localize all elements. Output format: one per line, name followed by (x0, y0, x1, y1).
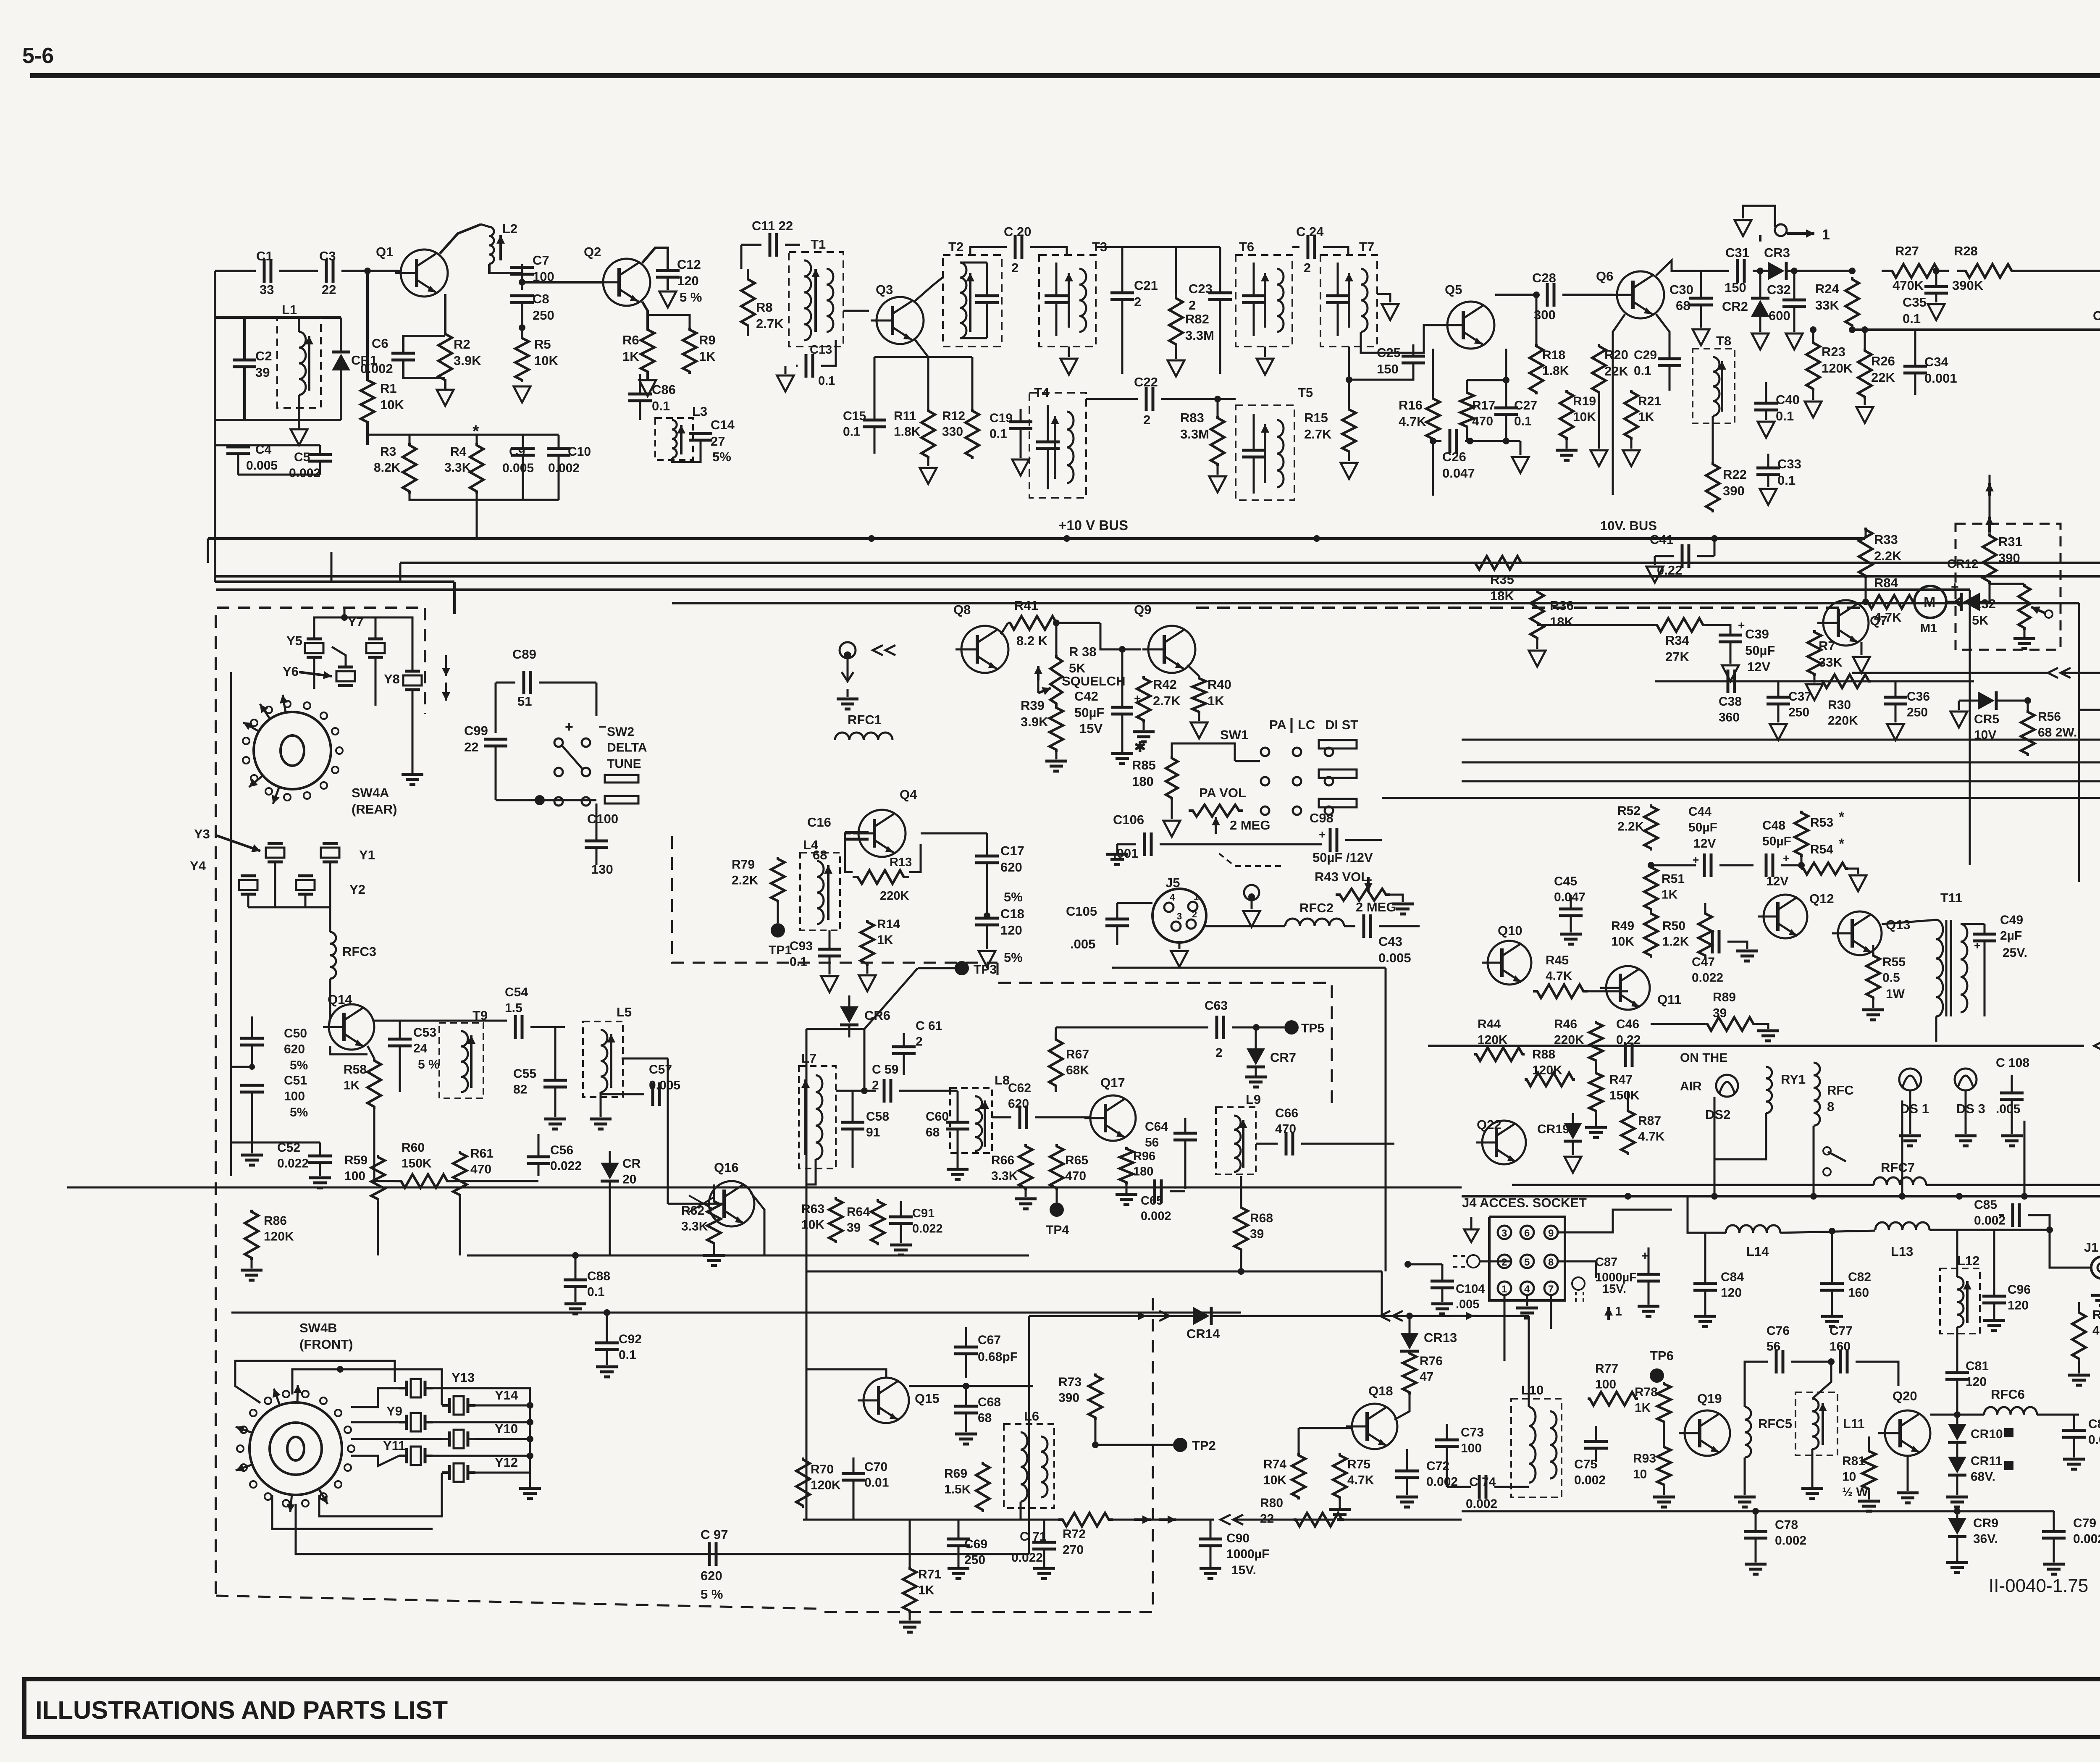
crystal bus wires (314, 617, 375, 639)
svg-text:0.1: 0.1 (587, 1285, 605, 1299)
resistor R16 4.7K (1426, 397, 1440, 441)
svg-text:3.3M: 3.3M (1180, 427, 1209, 441)
transistor Q3 (871, 297, 924, 344)
svg-text:50µF: 50µF (1688, 821, 1717, 835)
capacitor C15 0.1 (863, 419, 886, 422)
dashed TX boundary upper edge (997, 963, 1332, 1109)
svg-text:TUNE: TUNE (607, 757, 641, 771)
IF strip connections (751, 1193, 764, 1255)
capacitor C20 2 (1014, 235, 1017, 259)
svg-text:9: 9 (1548, 1228, 1554, 1239)
svg-text:27: 27 (711, 434, 725, 449)
svg-text:R68: R68 (1250, 1211, 1273, 1225)
svg-text:RFC7: RFC7 (1881, 1160, 1915, 1175)
svg-text:150: 150 (1725, 280, 1746, 295)
svg-text:R73: R73 (1058, 1375, 1081, 1389)
svg-text:C81: C81 (1966, 1359, 1989, 1373)
transistor Q8 (955, 626, 1008, 673)
svg-text:150K: 150K (402, 1157, 432, 1171)
svg-text:RFC6: RFC6 (1991, 1387, 2025, 1402)
svg-text:R46: R46 (1554, 1017, 1577, 1031)
svg-text:R55: R55 (1882, 955, 1906, 969)
meter M1 (1914, 586, 1946, 618)
net flag arrows inside synth box (445, 655, 447, 676)
svg-text:82: 82 (513, 1083, 527, 1097)
svg-text:R14: R14 (877, 917, 900, 931)
svg-text:R80: R80 (1260, 1496, 1283, 1510)
resistor R13 220K (853, 870, 909, 884)
svg-text:R83: R83 (1180, 410, 1204, 425)
svg-text:Y8: Y8 (384, 672, 400, 686)
ground right of T7 (1377, 294, 1390, 302)
svg-text:C53: C53 (413, 1026, 436, 1040)
svg-text:C 24: C 24 (1296, 224, 1324, 239)
svg-text:DELTA: DELTA (607, 741, 647, 755)
svg-text:RFC1: RFC1 (848, 712, 882, 727)
diode CR13 (1400, 1333, 1419, 1350)
capacitor C25 150 (1402, 355, 1425, 358)
socket contact circles (1467, 1255, 1480, 1268)
test point TP1 (771, 923, 785, 937)
svg-text:C30: C30 (1669, 282, 1693, 297)
transistor Q4 (853, 810, 906, 857)
resistor R42 2.7K (1137, 676, 1150, 722)
crystal Y2 (296, 880, 315, 890)
transistor Q10 (1482, 941, 1531, 985)
svg-text:LC: LC (1298, 717, 1315, 732)
svg-text:C23: C23 (1189, 281, 1213, 296)
inductor L4 can (800, 853, 840, 930)
svg-text:0.002: 0.002 (548, 461, 580, 475)
svg-text:L6: L6 (1024, 1409, 1039, 1423)
svg-text:C6: C6 (372, 336, 388, 351)
inductor L13 (1875, 1222, 1929, 1230)
svg-text:R44: R44 (1478, 1017, 1501, 1031)
svg-text:T6: T6 (1239, 239, 1254, 254)
svg-text:C42: C42 (1074, 689, 1098, 704)
svg-text:250: 250 (1788, 706, 1809, 720)
svg-text:T4: T4 (1034, 385, 1050, 400)
diode CR19 (1564, 1123, 1582, 1140)
svg-text:CR14: CR14 (1186, 1326, 1220, 1341)
svg-text:R 38: R 38 (1069, 644, 1096, 659)
diode CR14 (1193, 1307, 1210, 1325)
svg-text:R6: R6 (622, 333, 639, 347)
svg-text:100: 100 (344, 1169, 365, 1183)
svg-text:C1: C1 (256, 249, 273, 263)
svg-text:C26: C26 (1442, 449, 1466, 464)
resistor R17 470 (1460, 391, 1474, 429)
left mid rails (67, 1187, 1462, 1189)
transistor Q11 (1600, 966, 1650, 1010)
svg-text:R34: R34 (1665, 633, 1690, 648)
svg-text:Y3: Y3 (194, 827, 210, 841)
svg-text:C44: C44 (1688, 805, 1711, 819)
svg-text:15V.: 15V. (1602, 1282, 1626, 1296)
svg-text:C96: C96 (2008, 1283, 2031, 1297)
svg-text:R13: R13 (890, 856, 912, 869)
crystal Y3 (266, 848, 284, 858)
crystal Y1 (321, 848, 339, 858)
svg-text:22: 22 (1260, 1512, 1274, 1526)
svg-text:R20: R20 (1604, 347, 1628, 362)
inductor L1 dashed can (277, 318, 321, 408)
svg-text:0.1: 0.1 (1903, 311, 1921, 326)
svg-text:22K: 22K (1604, 364, 1628, 378)
svg-text:C8: C8 (533, 291, 549, 306)
svg-text:R23: R23 (1822, 344, 1845, 359)
svg-text:Y13: Y13 (451, 1370, 475, 1385)
svg-text:+: + (1319, 828, 1326, 841)
right trunk from CR4 down (2078, 603, 2080, 882)
svg-text:390: 390 (1723, 483, 1745, 498)
svg-text:2: 2 (1011, 260, 1018, 275)
svg-text:68K: 68K (1066, 1064, 1089, 1077)
svg-text:7: 7 (1548, 1284, 1554, 1295)
svg-text:33K: 33K (1815, 298, 1839, 312)
svg-text:C93: C93 (790, 939, 813, 953)
svg-text:R78: R78 (1635, 1385, 1658, 1399)
transistor Q7 (1817, 600, 1869, 646)
svg-text:L5: L5 (617, 1005, 632, 1019)
resistor R35 18K (1468, 556, 1529, 570)
svg-text:R59: R59 (344, 1153, 367, 1167)
capacitor C24 2 (1307, 235, 1310, 259)
capacitor C13 0.1 (805, 354, 808, 378)
verticals in synth (330, 1046, 367, 1054)
capacitor C36 250 (1884, 696, 1907, 699)
svg-text:100: 100 (1461, 1442, 1482, 1455)
svg-text:TP5: TP5 (1301, 1021, 1324, 1035)
svg-text:3.9K: 3.9K (454, 353, 481, 368)
svg-text:68: 68 (813, 848, 827, 862)
svg-text:0.1: 0.1 (1514, 415, 1532, 428)
svg-text:C78: C78 (1775, 1518, 1798, 1532)
svg-text:C 97: C 97 (701, 1527, 728, 1542)
svg-text:L1: L1 (282, 302, 297, 317)
svg-text:1K: 1K (1207, 693, 1224, 708)
svg-text:C82: C82 (1848, 1270, 1871, 1284)
svg-text:C46: C46 (1616, 1017, 1639, 1031)
svg-text:R26: R26 (1871, 354, 1895, 368)
svg-text:R69: R69 (944, 1467, 967, 1481)
svg-text:0.047: 0.047 (1442, 466, 1475, 481)
svg-text:180: 180 (1132, 774, 1154, 789)
svg-text:R30: R30 (1828, 698, 1851, 712)
svg-text:Y10: Y10 (495, 1421, 518, 1436)
transistor Q15 (858, 1378, 909, 1423)
svg-text:J4 ACCES. SOCKET: J4 ACCES. SOCKET (1462, 1195, 1587, 1210)
svg-text:18K: 18K (1490, 588, 1514, 603)
transistor Q2 (597, 259, 650, 306)
svg-text:RFC: RFC (1827, 1083, 1854, 1098)
svg-text:C100: C100 (587, 811, 618, 826)
svg-text:R79: R79 (732, 858, 755, 872)
svg-text:C63: C63 (1205, 999, 1228, 1013)
capacitor C88 0.1 (564, 1279, 587, 1281)
svg-text:C34: C34 (1924, 355, 1949, 369)
svg-text:220K: 220K (1828, 714, 1858, 728)
svg-text:Q11: Q11 (1657, 992, 1681, 1007)
svg-text:12V: 12V (1766, 874, 1788, 888)
svg-text:C25: C25 (1377, 345, 1401, 360)
capacitor C6 0.002 (444, 294, 446, 332)
capacitor C92 0.1 (595, 1342, 619, 1344)
svg-text:68 2W.: 68 2W. (2038, 726, 2077, 740)
capacitor C4 0.005 (226, 446, 250, 449)
svg-text:R72: R72 (1063, 1527, 1086, 1541)
svg-text:270: 270 (1063, 1543, 1084, 1557)
transformer T8 can (1693, 349, 1735, 423)
connector J1 ANT (2091, 1257, 2100, 1279)
svg-text:0.002: 0.002 (360, 361, 393, 376)
svg-text:150: 150 (1377, 362, 1399, 376)
svg-text:620: 620 (284, 1042, 305, 1056)
inductor L7 can (799, 1066, 836, 1169)
svg-text:+10 V BUS: +10 V BUS (1058, 517, 1128, 533)
svg-text:C80: C80 (2088, 1417, 2100, 1431)
svg-text:5: 5 (1524, 1257, 1530, 1268)
svg-text:Q9: Q9 (1134, 602, 1151, 617)
svg-text:CR11: CR11 (1971, 1454, 2002, 1468)
svg-text:220K: 220K (880, 889, 909, 903)
svg-text:R89: R89 (1713, 990, 1736, 1004)
svg-text:Y9: Y9 (386, 1404, 402, 1418)
svg-text:4: 4 (1524, 1284, 1530, 1295)
svg-text:R18: R18 (1542, 348, 1565, 362)
test point TP5 (1284, 1020, 1299, 1035)
svg-text:R49: R49 (1611, 919, 1634, 933)
svg-text:ON THE: ON THE (1680, 1051, 1727, 1065)
svg-text:470: 470 (1472, 415, 1493, 428)
inductor L11 can (1795, 1392, 1837, 1455)
svg-text:1.5K: 1.5K (944, 1483, 971, 1497)
svg-text:12V: 12V (1747, 659, 1770, 674)
svg-text:SW4A: SW4A (352, 785, 389, 800)
Q15 collector feed (806, 1369, 886, 1378)
svg-text:R33: R33 (1874, 532, 1898, 547)
svg-text:C3: C3 (319, 249, 336, 263)
wires down from IF strip to TX (864, 968, 918, 1091)
svg-text:R87: R87 (1638, 1114, 1661, 1128)
svg-text:R39: R39 (1021, 698, 1045, 713)
svg-text:Q13: Q13 (1886, 917, 1911, 932)
transformer T6 can (1236, 255, 1292, 347)
svg-text:R71: R71 (918, 1568, 941, 1581)
svg-text:T1: T1 (811, 237, 826, 252)
svg-text:C58: C58 (866, 1110, 889, 1124)
svg-text:1000µF: 1000µF (1226, 1547, 1269, 1561)
svg-text:CR3: CR3 (1764, 245, 1790, 260)
svg-text:C18: C18 (1000, 906, 1024, 921)
wire Q6 collector to C31 line (1656, 260, 1729, 276)
svg-text:L8: L8 (995, 1073, 1010, 1087)
bottom rail through R72 (803, 1519, 1058, 1521)
long interconnect rails (400, 562, 2100, 564)
transistor Q12 (1758, 895, 1807, 938)
svg-text:L9: L9 (1246, 1092, 1261, 1107)
svg-text:C11 22: C11 22 (752, 218, 793, 233)
potentiometer R38 5K SQUELCH (1050, 655, 1062, 706)
transistor Q22 (1476, 1121, 1526, 1164)
svg-text:C28: C28 (1532, 270, 1556, 285)
svg-text:C32: C32 (1767, 282, 1791, 297)
svg-text:2: 2 (1192, 909, 1197, 919)
svg-text:5 %: 5 % (701, 1587, 723, 1602)
svg-text:C60: C60 (926, 1110, 949, 1124)
svg-text:C104: C104 (1456, 1282, 1485, 1296)
crystal Y13 (411, 1379, 421, 1397)
svg-text:R1: R1 (380, 381, 397, 396)
pin wires (1558, 1210, 1672, 1232)
svg-text:R8: R8 (756, 300, 773, 315)
svg-text:C73: C73 (1461, 1426, 1484, 1439)
svg-text:T8: T8 (1716, 333, 1731, 348)
resistor R39 3.9K (1050, 706, 1063, 752)
resistor R84 4.7K (1866, 595, 1915, 609)
inductor L14 (1726, 1225, 1780, 1233)
svg-text:2: 2 (1304, 260, 1311, 275)
transistor Q6 (1611, 271, 1664, 318)
wire C7 to Q2 base (521, 274, 523, 290)
svg-text:DS 1: DS 1 (1900, 1101, 1929, 1116)
resistor R4 3.3K with star (470, 443, 483, 494)
svg-text:160: 160 (1848, 1286, 1869, 1300)
svg-text:CR: CR (622, 1157, 641, 1171)
svg-text:50µF: 50µF (1745, 643, 1775, 658)
svg-text:0.1: 0.1 (1777, 473, 1795, 488)
svg-text:22K: 22K (1871, 370, 1895, 385)
inductor L9 can (1216, 1107, 1256, 1174)
svg-text:51: 51 (517, 694, 532, 709)
wire node to bias rail (366, 271, 369, 378)
crystal Y7 (366, 643, 385, 653)
inductor L5 can (583, 1021, 623, 1097)
svg-text:470: 470 (470, 1163, 491, 1176)
svg-text:22: 22 (464, 740, 478, 754)
svg-text:R36: R36 (1550, 598, 1574, 613)
svg-text:L2: L2 (502, 221, 517, 236)
inductor L12 can (1940, 1268, 1980, 1334)
svg-text:C75: C75 (1574, 1457, 1597, 1471)
svg-text:Y12: Y12 (495, 1455, 518, 1470)
svg-text:+: + (1738, 619, 1745, 632)
resistor R2 3.9K (438, 332, 452, 382)
svg-text:Q22: Q22 (1477, 1117, 1501, 1132)
svg-text:C36: C36 (1907, 690, 1930, 704)
resistor R19 10K (1560, 390, 1573, 440)
relay contacts near RFC7 (1823, 1147, 1831, 1155)
svg-text:AIR: AIR (1680, 1079, 1702, 1093)
svg-text:2: 2 (1189, 298, 1196, 312)
svg-text:Q8: Q8 (953, 602, 971, 617)
svg-text:5%: 5% (1004, 950, 1023, 965)
resistor R7 33K (1808, 630, 1821, 676)
svg-text:120: 120 (1966, 1375, 1987, 1389)
svg-text:R54: R54 (1810, 843, 1833, 856)
svg-text:II-0040-1.75: II-0040-1.75 (1989, 1576, 2088, 1596)
svg-text:0.022: 0.022 (550, 1159, 582, 1173)
svg-text:2: 2 (1215, 1046, 1223, 1060)
svg-text:3.9K: 3.9K (1021, 714, 1048, 729)
synth internal trunk (230, 672, 232, 1176)
svg-text:R27: R27 (1895, 244, 1919, 258)
diode CR1 (332, 354, 350, 370)
test point TP4 (1050, 1203, 1064, 1217)
capacitor C3 22 (325, 259, 328, 283)
capacitor C14 27 5% (689, 432, 712, 435)
svg-text:C40: C40 (1776, 392, 1800, 407)
svg-text:C98: C98 (1310, 811, 1333, 825)
svg-text:C79: C79 (2073, 1516, 2096, 1530)
svg-text:10K: 10K (1573, 410, 1596, 424)
capacitor C2 39 (233, 359, 256, 362)
svg-text:R22: R22 (1723, 467, 1747, 482)
svg-text:0.002: 0.002 (1574, 1473, 1606, 1487)
switch to crystal wires (351, 1388, 399, 1407)
svg-text:1K: 1K (877, 933, 893, 947)
resistor R31 390 (1983, 533, 1996, 584)
svg-text:0.1: 0.1 (1634, 364, 1651, 378)
bottom title bar (24, 1679, 2100, 1737)
resistor R56 68 2W (2021, 710, 2034, 756)
inductor L6 can (1004, 1424, 1054, 1508)
resistor R30 220K (1821, 675, 1871, 688)
svg-text:47: 47 (1420, 1370, 1433, 1384)
resistor R36 18K (1530, 590, 1544, 640)
svg-text:100: 100 (1595, 1378, 1616, 1392)
inductor RFC7 (1874, 1177, 1926, 1185)
inductor L10 can (1511, 1399, 1562, 1497)
transistor Q17 (1084, 1095, 1136, 1141)
svg-text:25V.: 25V. (2003, 946, 2027, 960)
capacitor C86 0.1 (628, 393, 652, 396)
svg-text:Y5: Y5 (286, 633, 302, 648)
svg-text:R52: R52 (1617, 804, 1641, 818)
diode CR9 36V zener (1948, 1518, 1966, 1535)
svg-text:1: 1 (1501, 1284, 1507, 1295)
long wire above TP5 (1112, 967, 1386, 969)
resistor R63 10K (829, 1197, 843, 1243)
svg-text:+: + (565, 719, 573, 735)
svg-text:PA: PA (1269, 717, 1286, 732)
svg-text:R9: R9 (699, 333, 716, 347)
resistor R12 330 (966, 409, 979, 459)
svg-text:R60: R60 (402, 1141, 425, 1155)
svg-text:SQUELCH: SQUELCH (1062, 674, 1126, 688)
svg-text:(FRONT): (FRONT) (299, 1337, 353, 1352)
svg-text:130: 130 (591, 862, 613, 877)
transformer T9 can (439, 1023, 483, 1098)
CR12 dashed box with R31 R32 (1956, 524, 2061, 650)
wire meter to CR12 box (1864, 537, 1867, 540)
svg-text:0.1: 0.1 (990, 427, 1007, 441)
svg-text:1: 1 (1822, 227, 1830, 243)
capacitor C37 250 (1767, 696, 1790, 699)
svg-text:C49: C49 (2000, 913, 2023, 927)
svg-text:T7: T7 (1359, 239, 1374, 254)
diode CR5 10V zener (1978, 691, 1995, 710)
net flag contact left of Q8 (840, 642, 856, 658)
svg-text:R12: R12 (942, 409, 965, 423)
svg-text:5K: 5K (1069, 661, 1086, 675)
svg-text:180: 180 (1133, 1165, 1153, 1178)
resistor R21 1K (1625, 390, 1638, 440)
svg-text:C99: C99 (464, 723, 488, 738)
crystal Y8 (403, 675, 422, 685)
ground below Y8 (412, 690, 414, 773)
svg-text:C 59: C 59 (872, 1063, 898, 1077)
